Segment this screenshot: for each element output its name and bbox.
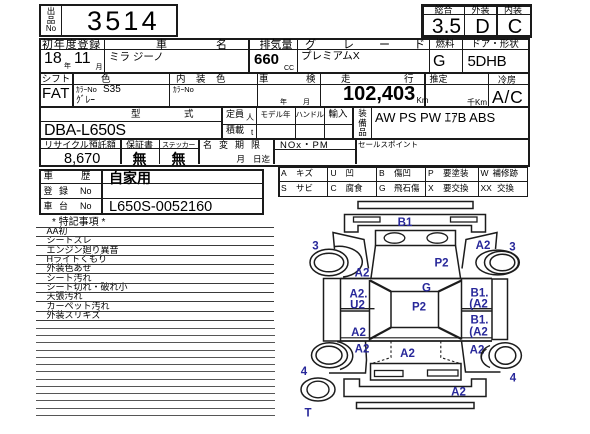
left door mid lines [341,308,375,310]
rear hatch dashed left [372,341,391,364]
front bumper [345,215,486,233]
row C headers [131,110,141,120]
lower band lines [341,337,493,339]
hood panel [376,231,456,246]
row C inner lines [39,121,222,122]
front bumper top strip [358,202,473,209]
front fender right [462,233,497,269]
row A verticals [104,38,106,72]
svg-text:(A2: (A2 [469,327,488,339]
svg-text:U2: U2 [350,300,365,312]
svg-text:A2: A2 [351,327,366,339]
right door mid lines [462,308,493,310]
rear-right fender arcs [481,346,490,368]
row A headers [40,40,103,51]
roof corner slant TL [370,281,391,292]
svg-text:G: G [422,283,431,295]
left rocker sill [324,279,341,342]
windshield left pillar [371,246,376,279]
windshield right pillar [456,246,461,279]
rear quarter right [462,341,501,372]
svg-text:B1.: B1. [471,315,489,327]
svg-text:3: 3 [312,241,318,253]
svg-text:3: 3 [509,242,515,254]
svg-text:4: 4 [510,373,517,385]
headlight left [384,233,405,243]
row D verticals [120,140,122,165]
taillight right [428,370,459,376]
roof corner slant BR [439,328,462,340]
spare tire [301,378,335,401]
roof corner slant TR [439,281,462,292]
row D headers [40,141,120,150]
right door edge [461,279,463,340]
front fog lamp left [354,217,381,222]
row B header underline [39,84,530,85]
svg-text:(A2: (A2 [469,299,488,311]
left door edge [369,280,371,341]
svg-text:P2: P2 [412,302,426,314]
front-left wheel [310,249,348,276]
row D values [64,152,100,167]
row C values [44,123,126,139]
roof panel [391,292,439,328]
svg-text:T: T [304,408,311,420]
row B values [42,86,70,101]
rear panel [371,364,462,381]
svg-text:B1: B1 [398,217,413,229]
svg-text:P2: P2 [434,258,448,270]
row B headers [40,75,72,85]
rear lower strip [357,403,475,409]
row D header underline [39,148,199,149]
front fender left [333,233,369,269]
right rocker sill [492,279,508,340]
svg-text:A2: A2 [476,240,491,252]
headlight right [427,233,448,243]
front fog lamp right [451,217,478,222]
rear quarter left [329,342,367,374]
row A header underline [39,49,530,50]
rear-right wheel [489,343,521,368]
svg-text:4: 4 [301,366,308,378]
svg-text:A2: A2 [451,387,466,399]
row A values [44,51,62,67]
svg-text:A2: A2 [355,344,370,356]
rear-left wheel [312,343,348,368]
taillight left [375,371,404,377]
rear hatch dashed right [441,341,460,364]
svg-text:A2: A2 [400,348,415,360]
front-right wheel [476,250,519,275]
row B verticals [72,74,74,107]
rear bumper [344,379,486,397]
roof corner slant BL [370,328,391,340]
cowl line [341,278,493,280]
